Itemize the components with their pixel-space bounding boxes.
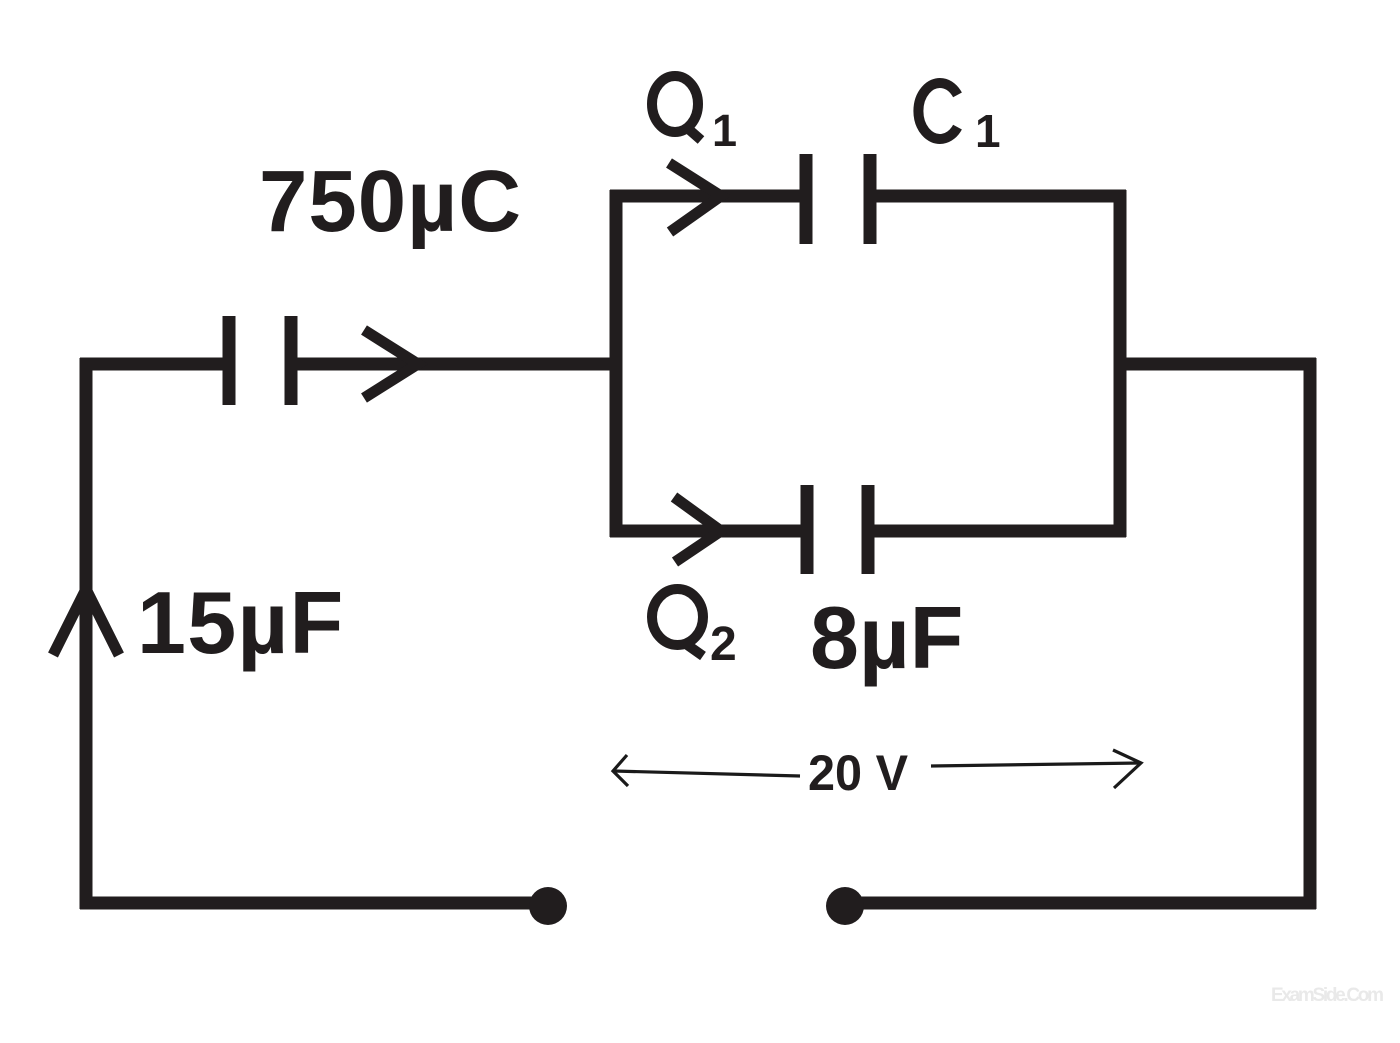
svg-text:750µC: 750µC xyxy=(259,153,522,250)
svg-text:ExamSide.Com: ExamSide.Com xyxy=(1271,985,1384,1006)
svg-text:15µF: 15µF xyxy=(137,573,345,672)
svg-text:1: 1 xyxy=(712,105,737,156)
svg-text:20 V: 20 V xyxy=(808,745,909,801)
svg-text:8µF: 8µF xyxy=(810,588,963,687)
svg-text:1: 1 xyxy=(975,105,1001,157)
svg-text:2: 2 xyxy=(710,618,737,671)
